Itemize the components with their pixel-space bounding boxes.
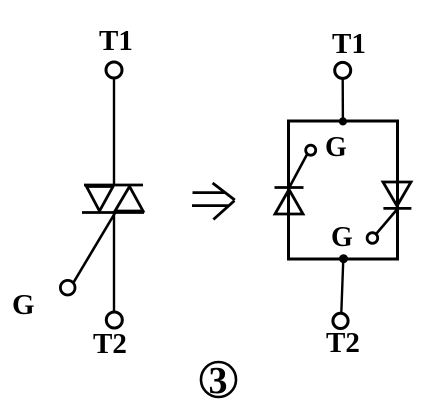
figure number 3: [201, 360, 236, 402]
thyristor right (pointing down): [383, 182, 411, 208]
terminal G2 (lower gate): [367, 233, 378, 244]
wire gate to right thyristor: [377, 210, 397, 234]
terminal G (left): [60, 280, 75, 295]
terminal G1 (upper gate): [306, 145, 316, 155]
wire gate (left): [74, 213, 116, 283]
junction bottom: [339, 254, 348, 263]
terminal T1 (right): [335, 62, 351, 78]
triac: [82, 185, 144, 213]
svg-text:G: G: [331, 222, 353, 253]
svg-text:G: G: [325, 132, 347, 163]
thyristor left (pointing up): [275, 188, 304, 215]
svg-text:T1: T1: [99, 25, 133, 57]
wire T1 to box: [342, 79, 345, 121]
wire box to T2 (right): [341, 259, 343, 313]
wire gate to left thyristor: [289, 155, 307, 188]
svg-text:T2: T2: [93, 328, 127, 360]
terminal T2 (left): [106, 312, 122, 328]
terminal T2 (right): [333, 313, 348, 328]
wire triac to T2 (left): [113, 213, 115, 312]
svg-text:T2: T2: [326, 327, 360, 359]
svg-text:T1: T1: [332, 28, 366, 60]
wire box loop: [289, 121, 398, 259]
wire T1 to triac: [113, 79, 115, 186]
svg-text:3: 3: [209, 360, 228, 402]
svg-text:G: G: [12, 289, 35, 321]
arrow implication: [192, 183, 235, 220]
terminal T1 (left): [106, 62, 122, 78]
junction top: [339, 117, 347, 125]
